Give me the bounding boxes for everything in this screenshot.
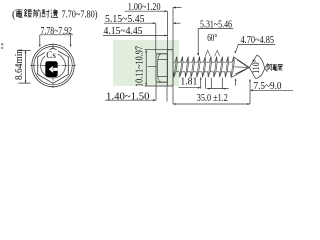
centerline vertical: [52, 43, 54, 88]
hexagon: [38, 48, 69, 83]
Cs marking: [45, 50, 58, 60]
thread top crest profile: [174, 57, 235, 63]
hex head profile: [156, 54, 167, 82]
svg-text:35.0 ±1.2: 35.0 ±1.2: [197, 93, 228, 104]
edge artifact dots: [1, 43, 3, 45]
chamfer circle: [34, 46, 72, 84]
svg-text:1.40~1.50: 1.40~1.50: [106, 91, 150, 102]
thread bottom crest profile: [174, 72, 233, 77]
svg-text:7.70~7.80): 7.70~7.80): [62, 10, 98, 21]
char du (plate): [24, 9, 32, 17]
svg-text:1.00~1.20: 1.00~1.20: [128, 2, 161, 13]
char dui (across): [42, 9, 50, 17]
thread helix flank lines: [174, 57, 234, 78]
centerline horizontal: [30, 65, 76, 67]
centerline stub: [148, 66, 157, 68]
tip angle ticks: [265, 63, 268, 72]
char dian (electric): [272, 64, 277, 71]
CJK label: lightning tail point: [267, 64, 282, 71]
indent circle: [41, 53, 66, 78]
char wei (tail): [278, 64, 283, 70]
washer: [167, 50, 173, 86]
washer outer circle: [32, 44, 74, 86]
char dian (electro): [15, 9, 22, 17]
char shan (lightning): [267, 64, 271, 70]
svg-text:Cs: Cs: [46, 51, 56, 61]
svg-text:110°: 110°: [251, 59, 261, 74]
char qian (before): [33, 9, 40, 17]
svg-text:8.64min: 8.64min: [14, 49, 25, 80]
green highlight: [113, 40, 179, 86]
facet lines: [158, 59, 168, 61]
svg-text:7.78~7.92: 7.78~7.92: [41, 26, 73, 37]
head logo: [45, 61, 58, 77]
CJK header text: plating across-flats note: [15, 9, 58, 18]
facet arcs: [157, 54, 161, 82]
svg-text:10.11~10.97: 10.11~10.97: [135, 46, 146, 87]
svg-text:1.81: 1.81: [180, 77, 197, 88]
drill point cone and flute leaf: [231, 55, 264, 79]
threads: [174, 57, 235, 78]
char bian (flats): [51, 9, 58, 18]
svg-text:(: (: [12, 10, 16, 21]
svg-text:60°: 60°: [207, 33, 217, 44]
